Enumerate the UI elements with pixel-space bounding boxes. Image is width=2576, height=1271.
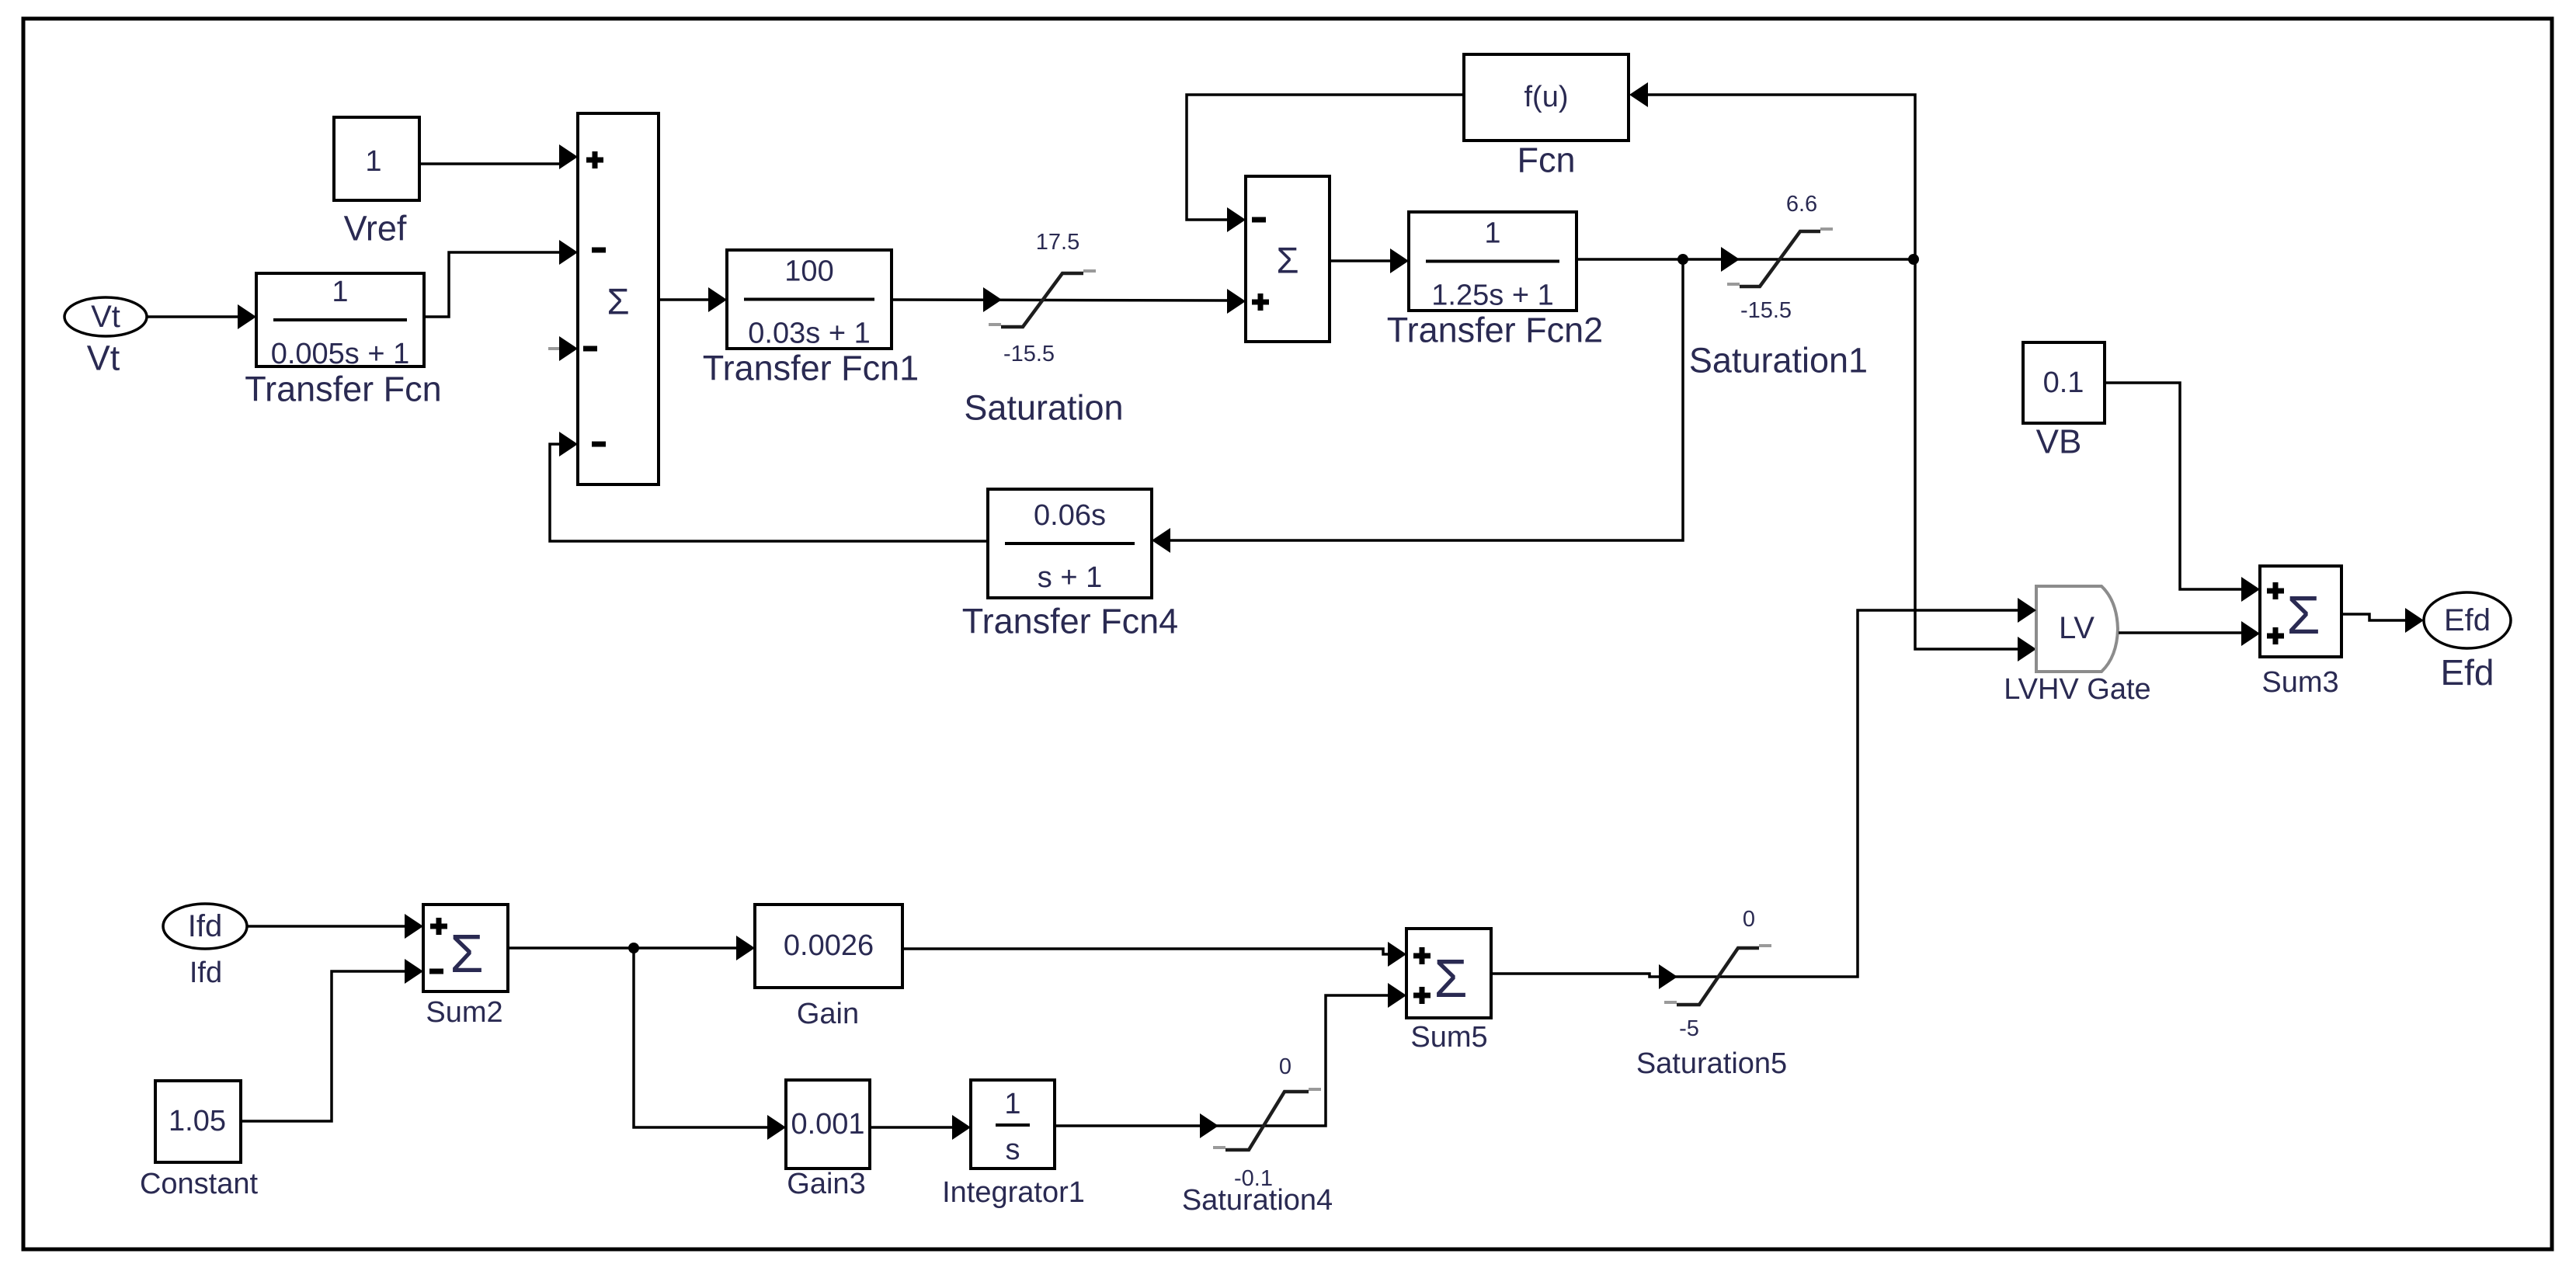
transfer function block Transfer Fcn1 100/(0.03s+1) (727, 250, 892, 349)
port sign + (Sum3 input 1) (2267, 589, 2284, 594)
port sign + (Sum5 input 1) (1413, 953, 1431, 959)
svg-text:6.6: 6.6 (1786, 192, 1817, 217)
svg-text:0.001: 0.001 (791, 1108, 864, 1141)
svg-text:LVHV Gate: LVHV Gate (2004, 673, 2150, 706)
svg-text:Σ: Σ (607, 281, 629, 322)
wire Transfer Fcn1 through Saturation to Sum1 + input (892, 300, 1229, 300)
svg-text:0.06s: 0.06s (1034, 499, 1106, 532)
transfer function block Transfer Fcn4 0.06s/(s+1) (988, 489, 1152, 598)
svg-text:Saturation1: Saturation1 (1689, 341, 1868, 380)
svg-text:1: 1 (1004, 1088, 1020, 1120)
port sign + of Sum1 (1252, 300, 1269, 305)
port sign - (input 2) (592, 248, 606, 253)
transfer function block Transfer Fcn 1/(0.005s+1) (256, 273, 424, 366)
constant block Constant 1.05 (155, 1081, 241, 1162)
wire junction J2 down to LVHV Gate lower input (1915, 259, 2019, 649)
svg-text:s: s (1006, 1134, 1020, 1166)
wire Sum3 output to Efd outport (2341, 614, 2407, 620)
saturation glyph Saturation (989, 323, 1001, 326)
wire Sum5 output through Saturation5 up to LVHV Gate upper input (1491, 610, 2019, 977)
sum block Sum2 (423, 905, 508, 991)
svg-text:Efd: Efd (2440, 652, 2494, 693)
svg-text:Transfer Fcn1: Transfer Fcn1 (703, 349, 919, 388)
svg-text:17.5: 17.5 (1036, 230, 1079, 255)
svg-text:1.05: 1.05 (169, 1105, 226, 1137)
port sign + of Sum2 (430, 924, 447, 929)
svg-text:1.25s + 1: 1.25s + 1 (1431, 280, 1553, 312)
svg-text:LV: LV (2059, 611, 2095, 645)
wire Transfer Fcn4 output to Sum input 4 (550, 444, 988, 541)
svg-text:Ifd: Ifd (188, 909, 222, 943)
wire Transfer Fcn2 output to junction and Saturation1 (1577, 258, 1915, 261)
svg-text:1: 1 (365, 145, 381, 178)
svg-text:100: 100 (784, 255, 833, 288)
svg-text:f(u): f(u) (1524, 81, 1569, 113)
saturation glyph Saturation5 (1664, 1001, 1677, 1004)
unconnected stub at Sum input 3 (548, 347, 561, 350)
wire Sum2 output to Gain with junction J3 (508, 946, 738, 950)
wire junction J1 down to Transfer Fcn4 input (1170, 259, 1683, 540)
wire VB output to Sum3 input 1 (2105, 383, 2243, 589)
svg-text:VB: VB (2036, 423, 2082, 461)
svg-text:Σ: Σ (2286, 585, 2320, 645)
constant block VB (2023, 342, 2105, 423)
svg-text:Vt: Vt (87, 339, 120, 378)
saturation glyph Saturation4 (1213, 1146, 1225, 1149)
gain block Gain3 0.001 (786, 1080, 870, 1169)
wire Gain output to Sum5 input 1 (902, 949, 1389, 954)
svg-text:s + 1: s + 1 (1038, 561, 1102, 594)
transfer function block Transfer Fcn2 1/(1.25s+1) (1409, 212, 1577, 311)
port sign + (Sum5 input 2) (1413, 993, 1431, 998)
wire Fcn output to Sum1 - input (1187, 95, 1464, 220)
junction node J1 (1677, 254, 1688, 265)
svg-text:0.1: 0.1 (2043, 366, 2084, 399)
svg-text:Σ: Σ (1434, 948, 1467, 1009)
wire Vt to Transfer Fcn (147, 315, 239, 318)
port sign - of Sum1 (1252, 217, 1266, 223)
wire Transfer Fcn to Sum input 2 (424, 252, 561, 317)
svg-text:-15.5: -15.5 (1740, 298, 1792, 323)
port sign + (input 1) (586, 158, 603, 163)
integrator block Integrator1 1/s (971, 1080, 1055, 1169)
svg-text:Vref: Vref (344, 209, 407, 248)
constant block Vref (334, 117, 419, 200)
gain block Gain 0.0026 (755, 905, 902, 988)
svg-text:Transfer Fcn4: Transfer Fcn4 (962, 602, 1178, 641)
LVHV Gate block (2036, 586, 2118, 672)
junction node J3 (628, 943, 639, 953)
svg-text:0.03s + 1: 0.03s + 1 (748, 318, 870, 350)
svg-text:0.005s + 1: 0.005s + 1 (271, 338, 410, 370)
svg-text:-5: -5 (1679, 1016, 1699, 1041)
svg-text:Efd: Efd (2444, 603, 2491, 637)
junction node J2 (1908, 254, 1919, 265)
svg-text:1: 1 (332, 276, 348, 308)
wire junction J2 up to Fcn input (1647, 95, 1915, 259)
saturation glyph Saturation1 (1727, 283, 1740, 286)
svg-text:Gain: Gain (797, 998, 859, 1030)
svg-text:Fcn: Fcn (1517, 141, 1575, 180)
wire Vref to Sum input 1 (419, 157, 564, 164)
svg-text:0.0026: 0.0026 (784, 929, 874, 962)
svg-text:Σ: Σ (450, 923, 483, 984)
svg-text:Integrator1: Integrator1 (942, 1176, 1085, 1209)
wire Integrator1 through Saturation4 up to Sum5 input 2 (1055, 995, 1389, 1126)
svg-text:Sum3: Sum3 (2261, 666, 2338, 699)
svg-text:Transfer Fcn: Transfer Fcn (245, 370, 441, 409)
sum block Sum3 (2260, 566, 2341, 657)
svg-text:Sum2: Sum2 (426, 996, 502, 1029)
inport Ifd (163, 904, 247, 949)
wire Ifd to Sum2 + input (247, 925, 406, 928)
wire Constant to Sum2 - input (241, 971, 406, 1121)
wire junction J3 down to Gain3 (634, 948, 769, 1127)
svg-text:Transfer Fcn2: Transfer Fcn2 (1387, 311, 1603, 350)
function block Fcn f(u) (1464, 54, 1629, 141)
svg-text:Saturation5: Saturation5 (1636, 1047, 1787, 1080)
sum block Sum1 (1246, 176, 1330, 342)
wire Gain3 to Integrator1 (870, 1126, 954, 1129)
wire Sum1 output to Transfer Fcn2 (1330, 259, 1392, 262)
svg-text:Gain3: Gain3 (787, 1168, 865, 1200)
svg-text:Constant: Constant (140, 1168, 259, 1200)
outport Efd (2424, 592, 2511, 648)
svg-text:-15.5: -15.5 (1003, 342, 1055, 366)
port sign - of Sum2 (429, 969, 443, 974)
wire LVHV Gate output to Sum3 input 2 (2119, 631, 2243, 634)
svg-text:Ifd: Ifd (189, 957, 222, 989)
port sign + (Sum3 input 2) (2267, 634, 2284, 639)
svg-text:Saturation4: Saturation4 (1182, 1184, 1333, 1217)
inport Vt (64, 297, 147, 336)
wire Sum output to Transfer Fcn1 (659, 298, 710, 301)
svg-text:0: 0 (1279, 1054, 1291, 1079)
svg-text:Σ: Σ (1276, 240, 1298, 281)
svg-text:Sum5: Sum5 (1410, 1021, 1487, 1054)
port sign - (input 4) (592, 442, 606, 447)
svg-text:0: 0 (1743, 907, 1755, 932)
sum block Sum5 (1406, 929, 1491, 1018)
port sign - (input 3) (583, 346, 597, 352)
svg-text:Saturation: Saturation (964, 388, 1123, 428)
sum block Sum (4 inputs) (578, 113, 659, 484)
svg-text:Vt: Vt (91, 300, 120, 334)
svg-text:1: 1 (1484, 217, 1500, 250)
